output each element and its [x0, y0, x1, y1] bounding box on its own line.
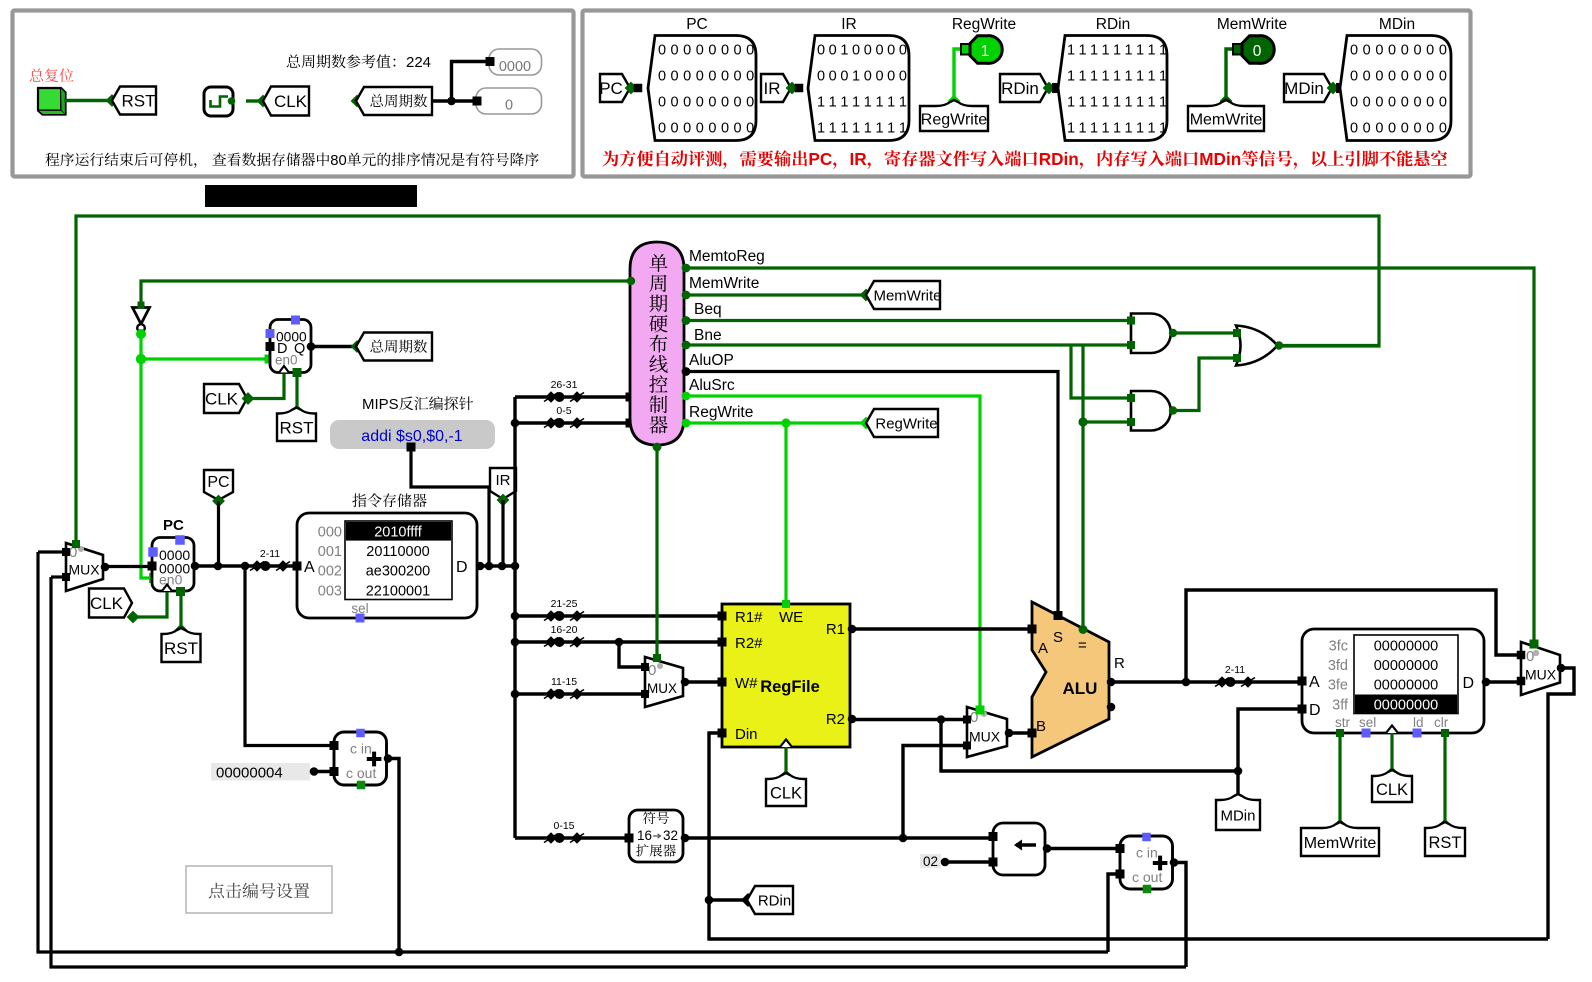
svg-text:MDin: MDin: [1284, 79, 1324, 98]
svg-text:1: 1: [1078, 69, 1086, 85]
svg-text:en0: en0: [275, 353, 298, 368]
svg-text:00000000: 00000000: [1374, 639, 1439, 655]
svg-text:0: 0: [1426, 69, 1434, 85]
svg-text:CLK: CLK: [205, 390, 239, 409]
svg-text:0: 0: [658, 69, 666, 85]
svg-text:1: 1: [1124, 69, 1132, 85]
svg-text:0: 0: [708, 95, 716, 111]
svg-text:0: 0: [734, 69, 742, 85]
svg-text:0: 0: [1413, 69, 1421, 85]
svg-text:W#: W#: [735, 675, 758, 692]
svg-text:0: 0: [1426, 43, 1434, 59]
svg-text:1: 1: [1090, 121, 1098, 137]
svg-text:ae300200: ae300200: [366, 564, 431, 580]
svg-text:0: 0: [1401, 121, 1409, 137]
svg-text:RDin: RDin: [1001, 79, 1039, 98]
svg-text:1: 1: [1078, 95, 1086, 111]
svg-text:0: 0: [1526, 648, 1534, 665]
svg-text:IR: IR: [496, 472, 511, 489]
svg-text:0: 0: [1350, 95, 1358, 111]
svg-text:1: 1: [887, 95, 895, 111]
svg-text:RST: RST: [1429, 834, 1462, 852]
svg-text:0: 0: [875, 43, 883, 59]
svg-text:1: 1: [840, 43, 848, 59]
svg-text:00000000: 00000000: [1374, 697, 1439, 713]
svg-text:1: 1: [1113, 95, 1121, 111]
svg-text:D: D: [456, 559, 468, 576]
svg-text:1: 1: [817, 121, 825, 137]
svg-text:1: 1: [1113, 69, 1121, 85]
svg-text:1: 1: [852, 121, 860, 137]
svg-text:32: 32: [663, 828, 678, 843]
svg-text:1: 1: [1147, 95, 1155, 111]
svg-text:0: 0: [746, 43, 754, 59]
svg-text:Bne: Bne: [694, 327, 722, 344]
svg-text:RST: RST: [164, 639, 198, 658]
svg-text:00000000: 00000000: [1374, 678, 1439, 694]
svg-text:0: 0: [746, 69, 754, 85]
svg-text:0-15: 0-15: [553, 820, 574, 832]
svg-text:000: 000: [318, 525, 342, 541]
svg-text:1: 1: [1113, 43, 1121, 59]
svg-text:A: A: [1038, 640, 1048, 657]
svg-text:MUX: MUX: [647, 681, 677, 696]
svg-text:0: 0: [1426, 95, 1434, 111]
svg-text:addi $s0,$0,-1: addi $s0,$0,-1: [361, 428, 463, 445]
svg-text:0: 0: [1439, 121, 1447, 137]
svg-text:1: 1: [1124, 121, 1132, 137]
svg-text:001: 001: [318, 544, 342, 560]
svg-text:0: 0: [1253, 43, 1262, 60]
svg-text:00000004: 00000004: [216, 765, 283, 782]
svg-text:0: 0: [887, 43, 895, 59]
svg-text:IR: IR: [849, 149, 867, 169]
svg-text:A: A: [1309, 674, 1320, 691]
svg-text:1: 1: [840, 95, 848, 111]
svg-text:0: 0: [864, 43, 872, 59]
svg-text:1: 1: [1067, 121, 1075, 137]
svg-text:MDin: MDin: [1379, 16, 1415, 33]
svg-text:1: 1: [1159, 95, 1167, 111]
svg-text:MemWrite: MemWrite: [1190, 111, 1263, 128]
svg-text:A: A: [304, 559, 315, 576]
svg-text:0: 0: [696, 95, 704, 111]
svg-text:1: 1: [1113, 121, 1121, 137]
svg-text:0: 0: [817, 69, 825, 85]
svg-text:PC: PC: [808, 149, 832, 169]
svg-text:1: 1: [1101, 43, 1109, 59]
svg-text:D: D: [1309, 702, 1321, 719]
svg-text:0: 0: [708, 43, 716, 59]
svg-text:2-11: 2-11: [1225, 664, 1245, 676]
svg-text:3fc: 3fc: [1329, 639, 1348, 655]
svg-text:20110000: 20110000: [366, 544, 429, 560]
svg-text:1: 1: [864, 95, 872, 111]
svg-text:1: 1: [1159, 121, 1167, 137]
svg-text:0: 0: [1388, 121, 1396, 137]
svg-text:0: 0: [1439, 69, 1447, 85]
svg-text:21-25: 21-25: [551, 598, 578, 610]
svg-text:0: 0: [1413, 43, 1421, 59]
svg-text:D: D: [1462, 675, 1474, 692]
svg-text:0: 0: [1413, 95, 1421, 111]
svg-text:AluSrc: AluSrc: [689, 377, 735, 394]
svg-text:0: 0: [721, 43, 729, 59]
svg-text:0: 0: [683, 121, 691, 137]
svg-text:1: 1: [1067, 69, 1075, 85]
svg-text:0: 0: [1426, 121, 1434, 137]
svg-text:0: 0: [708, 69, 716, 85]
svg-text:3fe: 3fe: [1328, 678, 1348, 694]
svg-text:MIPS: MIPS: [362, 396, 399, 413]
svg-text:0: 0: [829, 43, 837, 59]
svg-text:0: 0: [1363, 69, 1371, 85]
svg-text:0: 0: [658, 95, 666, 111]
svg-text:224: 224: [406, 54, 431, 71]
svg-text:00000000: 00000000: [1374, 658, 1439, 674]
svg-text:PC: PC: [163, 517, 184, 534]
svg-text:0: 0: [1401, 43, 1409, 59]
svg-text:MUX: MUX: [969, 729, 1001, 745]
svg-text:0: 0: [1350, 69, 1358, 85]
svg-text:1: 1: [1136, 121, 1144, 137]
svg-text:0: 0: [1401, 69, 1409, 85]
svg-text:0: 0: [1363, 95, 1371, 111]
svg-text:1: 1: [1136, 95, 1144, 111]
svg-text:0: 0: [746, 121, 754, 137]
svg-text:ld: ld: [1413, 715, 1424, 730]
svg-text:0: 0: [683, 95, 691, 111]
svg-text:MUX: MUX: [1525, 667, 1557, 683]
svg-text:0: 0: [708, 121, 716, 137]
svg-text:0: 0: [1439, 43, 1447, 59]
svg-text:3fd: 3fd: [1328, 658, 1348, 674]
svg-text:0-5: 0-5: [556, 405, 571, 417]
svg-text:0: 0: [1350, 43, 1358, 59]
svg-text:0: 0: [696, 43, 704, 59]
svg-text:1: 1: [1136, 43, 1144, 59]
svg-text:CLK: CLK: [90, 594, 124, 613]
svg-text:1: 1: [852, 95, 860, 111]
svg-text:0: 0: [721, 69, 729, 85]
svg-text:0: 0: [899, 43, 907, 59]
svg-text:RST: RST: [280, 418, 314, 437]
svg-text:0: 0: [1375, 95, 1383, 111]
svg-text:CLK: CLK: [274, 92, 308, 111]
svg-text:AluOP: AluOP: [689, 352, 734, 369]
svg-text:0: 0: [1413, 121, 1421, 137]
svg-text:0: 0: [1375, 69, 1383, 85]
svg-text:CLK: CLK: [1376, 781, 1408, 799]
svg-text:1: 1: [864, 121, 872, 137]
svg-text:02: 02: [923, 854, 938, 869]
svg-text:1: 1: [1090, 43, 1098, 59]
svg-text:MemWrite: MemWrite: [873, 287, 941, 304]
svg-text:0: 0: [683, 43, 691, 59]
svg-text:1: 1: [840, 121, 848, 137]
svg-text:1: 1: [1136, 69, 1144, 85]
svg-text:R2: R2: [826, 711, 845, 728]
svg-text:0: 0: [1375, 43, 1383, 59]
svg-text:MemWrite: MemWrite: [1304, 835, 1377, 852]
svg-text:1: 1: [1067, 43, 1075, 59]
svg-text:IR: IR: [841, 16, 857, 33]
svg-text:0: 0: [1401, 95, 1409, 111]
svg-text:1: 1: [1067, 95, 1075, 111]
svg-text:Din: Din: [735, 726, 758, 743]
svg-text:RegWrite: RegWrite: [952, 16, 1016, 33]
svg-text:0: 0: [658, 43, 666, 59]
svg-text:0: 0: [671, 95, 679, 111]
svg-text:16: 16: [637, 828, 652, 843]
svg-text:1: 1: [887, 121, 895, 137]
svg-text:R1: R1: [826, 621, 845, 638]
svg-text:80: 80: [330, 153, 346, 169]
svg-text:MemtoReg: MemtoReg: [689, 248, 765, 265]
svg-text:0: 0: [1388, 43, 1396, 59]
svg-text:1: 1: [899, 95, 907, 111]
svg-text:1: 1: [1147, 43, 1155, 59]
svg-text:0: 0: [852, 43, 860, 59]
svg-text:0: 0: [864, 69, 872, 85]
svg-text:0: 0: [671, 69, 679, 85]
svg-text:0: 0: [840, 69, 848, 85]
svg-text:str: str: [1335, 715, 1351, 730]
svg-text:0: 0: [875, 69, 883, 85]
svg-text:1: 1: [1090, 95, 1098, 111]
svg-text:1: 1: [1124, 95, 1132, 111]
svg-text:1: 1: [1159, 43, 1167, 59]
svg-text:0: 0: [1363, 43, 1371, 59]
svg-text:1: 1: [1078, 43, 1086, 59]
svg-text:1: 1: [1147, 121, 1155, 137]
svg-text:003: 003: [318, 583, 342, 599]
svg-text:0: 0: [671, 121, 679, 137]
svg-text:0: 0: [683, 69, 691, 85]
svg-text:1: 1: [1101, 121, 1109, 137]
svg-text:1: 1: [1159, 69, 1167, 85]
svg-text:R: R: [1114, 655, 1125, 672]
svg-text:0: 0: [746, 95, 754, 111]
svg-text:2010ffff: 2010ffff: [374, 525, 423, 541]
svg-text:MDin: MDin: [1199, 149, 1241, 169]
svg-text:0: 0: [734, 43, 742, 59]
svg-text:CLK: CLK: [770, 784, 802, 802]
svg-text:0: 0: [696, 121, 704, 137]
svg-text:0: 0: [817, 43, 825, 59]
svg-text:1: 1: [852, 69, 860, 85]
svg-text:en0: en0: [159, 572, 183, 588]
svg-text:1: 1: [1090, 69, 1098, 85]
svg-text:1: 1: [1101, 95, 1109, 111]
svg-text:0: 0: [1363, 121, 1371, 137]
svg-text:0: 0: [1375, 121, 1383, 137]
svg-text:1: 1: [981, 43, 990, 60]
svg-text:0: 0: [1388, 69, 1396, 85]
svg-text:2-11: 2-11: [260, 548, 280, 560]
svg-text:ALU: ALU: [1063, 679, 1098, 698]
svg-text:0: 0: [696, 69, 704, 85]
svg-text:MemWrite: MemWrite: [689, 275, 759, 292]
svg-text:0: 0: [671, 43, 679, 59]
svg-text:11-15: 11-15: [551, 676, 577, 688]
svg-text:16-20: 16-20: [551, 624, 578, 636]
svg-text:PC: PC: [686, 16, 708, 33]
svg-text:0: 0: [899, 69, 907, 85]
svg-text:0: 0: [721, 121, 729, 137]
svg-text:1: 1: [1124, 43, 1132, 59]
svg-text:RDin: RDin: [758, 892, 791, 909]
svg-text:PC: PC: [207, 474, 229, 491]
svg-text:RegWrite: RegWrite: [875, 415, 937, 432]
svg-text:WE: WE: [779, 609, 803, 626]
svg-text:clr: clr: [1434, 715, 1449, 730]
svg-text:0: 0: [887, 69, 895, 85]
svg-text:MUX: MUX: [69, 562, 101, 578]
svg-text:1: 1: [1078, 121, 1086, 137]
svg-text:0: 0: [829, 69, 837, 85]
svg-text:1: 1: [1147, 69, 1155, 85]
svg-text:c in: c in: [1136, 845, 1158, 861]
svg-text:RegFile: RegFile: [760, 678, 820, 696]
svg-text:c out: c out: [1132, 869, 1162, 885]
svg-text:MemWrite: MemWrite: [1217, 16, 1287, 33]
svg-text:22100001: 22100001: [366, 583, 431, 599]
svg-text:1: 1: [817, 95, 825, 111]
svg-text:0: 0: [734, 121, 742, 137]
svg-text:002: 002: [318, 564, 342, 580]
svg-text:RST: RST: [122, 92, 156, 111]
svg-text:0: 0: [1439, 95, 1447, 111]
svg-text:c in: c in: [350, 741, 372, 757]
svg-text:1: 1: [829, 95, 837, 111]
svg-text:1: 1: [899, 121, 907, 137]
svg-text:0: 0: [648, 662, 656, 679]
svg-text:0: 0: [505, 98, 513, 114]
svg-text:S: S: [1053, 629, 1063, 646]
svg-text:1: 1: [875, 121, 883, 137]
svg-text:1: 1: [829, 121, 837, 137]
svg-text:Beq: Beq: [694, 301, 722, 318]
svg-text:1: 1: [875, 95, 883, 111]
svg-text:RegWrite: RegWrite: [921, 111, 987, 128]
svg-text:0000: 0000: [499, 59, 531, 75]
svg-text:RDin: RDin: [1039, 149, 1079, 169]
svg-text:sel: sel: [1359, 715, 1376, 730]
svg-text:RegWrite: RegWrite: [689, 404, 753, 421]
svg-text:0: 0: [1350, 121, 1358, 137]
svg-text:IR: IR: [764, 79, 781, 98]
svg-text:R1#: R1#: [735, 609, 763, 626]
svg-text:R2#: R2#: [735, 635, 763, 652]
svg-text:c out: c out: [346, 765, 376, 781]
svg-text:26-31: 26-31: [551, 379, 578, 391]
svg-text:RDin: RDin: [1096, 16, 1130, 33]
svg-text:0: 0: [721, 95, 729, 111]
svg-text:0: 0: [734, 95, 742, 111]
svg-text:PC: PC: [599, 79, 623, 98]
svg-text:MDin: MDin: [1220, 807, 1255, 824]
svg-text:3ff: 3ff: [1332, 697, 1349, 713]
svg-text:0: 0: [658, 121, 666, 137]
svg-text:=: =: [1078, 637, 1087, 654]
svg-text:1: 1: [1101, 69, 1109, 85]
svg-text:0: 0: [1388, 95, 1396, 111]
svg-text:B: B: [1036, 718, 1046, 735]
